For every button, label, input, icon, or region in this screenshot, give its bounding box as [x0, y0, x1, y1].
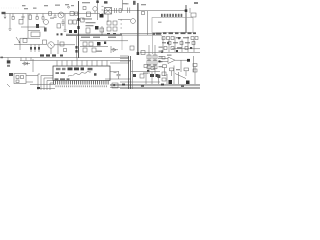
label row4: [173, 42, 178, 43]
label under Q2: [82, 18, 92, 19]
mid right grid: resistor R26: [162, 37, 165, 40]
label col a: [159, 56, 163, 57]
resistor R52: [162, 78, 166, 81]
text row over mid cluster c: [108, 37, 116, 38]
wire vertical x28: [27, 14, 29, 39]
resistor R21: [100, 28, 104, 32]
wire top rail right: [104, 10, 186, 12]
wire from box: [26, 75, 38, 77]
resistor R38b: [64, 49, 67, 52]
capacitor C10: [140, 74, 144, 78]
label C12: [114, 71, 117, 73]
resistor R39: [60, 42, 64, 46]
wire h y44.5: [14, 44, 42, 46]
bus wire y60.5: [20, 60, 131, 62]
mark inside B1: [158, 22, 162, 24]
dark mark: [36, 24, 39, 28]
vertical connects right grid: [163, 37, 194, 53]
glyph left of box: [9, 73, 13, 76]
resistor R43: [92, 48, 96, 52]
wire vertical x108: [107, 14, 109, 22]
label near V2: [133, 1, 136, 5]
capacitor C7: [62, 19, 65, 26]
resistor R55: [144, 65, 148, 68]
dark dashes row: [40, 54, 44, 56]
dark mark grid b: [167, 42, 169, 44]
resistor R46: [147, 61, 151, 65]
resistor R41: [89, 42, 93, 46]
partial bus y79: [105, 78, 131, 80]
capacitor C6: [54, 14, 57, 18]
label row3: [162, 42, 166, 43]
U1 text row1: [56, 68, 93, 71]
dark blob br2: [186, 81, 190, 85]
dark mark far left: [1, 57, 4, 59]
bottom bus 2: [110, 85, 200, 87]
diode D2: [22, 62, 30, 65]
wire vertical x65: [64, 14, 66, 31]
resistor R47: [153, 61, 157, 65]
vertical x167: [166, 74, 168, 84]
resistor R19: [81, 18, 85, 22]
resistor R51: [162, 72, 166, 76]
wire h y38.2: [20, 37, 40, 39]
bottom-left box: [14, 74, 26, 84]
wire h y52.5: [140, 52, 200, 54]
dark blob br1: [169, 80, 173, 84]
vertical x174: [173, 66, 175, 85]
op-amp U2: [168, 57, 175, 64]
resistor R56: [151, 67, 155, 70]
vertical x35 w blob: [34, 45, 36, 53]
dark square A: [69, 30, 72, 33]
resistor R2: [29, 15, 31, 20]
label col c: [159, 47, 163, 48]
vertical pair x76.5: [76, 36, 78, 58]
vertical box edge x122: [121, 36, 123, 50]
dark mark r1: [150, 74, 154, 77]
staircase wire 1: [41, 76, 53, 91]
resistor R32: [180, 42, 183, 45]
wire from box2: [26, 81, 33, 83]
box B1 shield: [152, 18, 193, 33]
bus tick b: [141, 85, 144, 87]
label near R8: [50, 18, 54, 19]
vertical x158.5: [158, 78, 160, 84]
staircase foot line: [38, 88, 55, 90]
transistor Q2: [93, 7, 97, 11]
blob top x97: [96, 1, 99, 4]
resistor R5: [49, 12, 52, 15]
label right of V2: [141, 4, 146, 5]
resistor R30: [195, 37, 198, 40]
dark blob mid-bottom: [133, 74, 136, 77]
resistor R13: [119, 9, 122, 12]
wire vertical x97: [97, 0, 99, 20]
bottom bus 3: [110, 86, 200, 88]
capacitor C11: [157, 75, 160, 79]
resistor R25: [113, 27, 117, 31]
dark corner: [37, 87, 40, 89]
text row over mid cluster: [81, 37, 90, 38]
wire vertical dark V2: [137, 3, 139, 55]
faint dot row top-left: [1, 7, 19, 9]
resistor R36: [185, 47, 188, 50]
resistor R45: [153, 55, 157, 59]
transformer T1: [105, 8, 112, 15]
resistor R22: [107, 21, 111, 25]
mark under Q3: [44, 28, 47, 32]
partial bus y82: [120, 81, 160, 83]
resistor R1: [12, 14, 14, 17]
corner label: [194, 2, 198, 4]
resistor R11 dark: [100, 14, 104, 18]
dark dot under cluster: [147, 70, 149, 72]
label IN: [2, 12, 6, 14]
vertical x149: [148, 45, 150, 74]
dark dot in U1: [94, 73, 97, 76]
vertical x146: [145, 74, 147, 84]
dark blob c: [97, 42, 101, 46]
blob pair: [75, 46, 77, 49]
wire h y30.5: [28, 30, 40, 32]
resistor R18: [73, 20, 77, 24]
vertical x31 w blob: [30, 45, 32, 53]
dark dash c: [52, 54, 56, 56]
tick pins T1: [102, 6, 104, 14]
bus wire y57.5: [0, 57, 129, 59]
staircase wire 2: [44, 78, 53, 90]
resistor R6: [70, 12, 74, 16]
ground G1: [9, 29, 12, 31]
resistor R17: [69, 20, 73, 24]
label row: [176, 37, 181, 38]
resistor R50: [184, 68, 189, 71]
U1 inner bottom text: [55, 78, 70, 80]
dark mark r2: [156, 74, 159, 77]
bus stub verticals left: [21, 58, 31, 61]
dark square B: [74, 30, 77, 33]
vertical bus x130.6: [130, 56, 132, 89]
resistor R35: [171, 47, 174, 50]
resistor R40: [83, 42, 87, 46]
dark mark grid a: [178, 37, 180, 39]
wire vertical x147: [147, 11, 149, 35]
resistor R15: [191, 13, 196, 17]
label cluster: [123, 3, 128, 4]
bus tick a: [122, 84, 125, 86]
wire vertical x122.5 top: [122, 0, 124, 11]
U2 input wires: [158, 59, 168, 62]
dark mark opamp in: [159, 60, 161, 62]
transistor Q4: [48, 42, 54, 48]
resistor R27: [167, 37, 170, 40]
tiny ring: [68, 6, 70, 8]
resistor R20: [86, 28, 90, 33]
text row over mid cluster b: [93, 37, 100, 38]
glyph below dark comp: [7, 65, 10, 67]
ticks dashed box left: [121, 20, 123, 28]
wire vertical x33 low: [32, 59, 34, 72]
wire vertical main V1: [78, 1, 80, 58]
dark dot mid: [104, 42, 106, 45]
label col d: [159, 51, 163, 52]
vertical bus x128.6: [128, 56, 130, 89]
wire vertical x10: [9, 14, 11, 30]
U1 text row2: [56, 72, 66, 74]
wire h y46.5: [80, 46, 108, 48]
dark dot bus b: [57, 33, 59, 35]
diagonal wire: [175, 74, 186, 79]
blob pair2: [75, 50, 77, 53]
vertical x195: [194, 67, 196, 85]
capacitor C8: [128, 8, 130, 14]
dark dash b: [46, 54, 50, 56]
capacitor C9: [64, 30, 67, 32]
resistor R44: [147, 55, 151, 59]
U1 pin numbers: [56, 85, 107, 87]
wire h y34.7: [66, 34, 122, 35]
connector CN1 pins: [161, 14, 182, 17]
resistor R37: [23, 39, 27, 43]
resistor R28: [171, 37, 174, 40]
resistor R54: [193, 69, 197, 72]
verticals under: [165, 56, 194, 76]
label col e: [159, 66, 163, 67]
IC U1 body: [53, 66, 110, 81]
bus feeds left: [120, 56, 131, 61]
text rows mid: [86, 22, 96, 23]
vertical x155: [154, 45, 156, 74]
node blob on V1 lower: [77, 26, 79, 29]
wire h y44.8: [55, 44, 76, 46]
wire vertical x58: [57, 40, 59, 54]
capacitor C12: [117, 71, 121, 79]
arrow blob V2 end: [137, 52, 140, 55]
vertical x39 w blob: [38, 45, 40, 53]
resistor R48: [163, 65, 167, 68]
coil component x130 y46: [130, 46, 134, 50]
label col b: [159, 61, 163, 62]
resistor R23: [113, 21, 117, 25]
label mid-bottom: [143, 73, 148, 74]
wire U1 to C12: [110, 63, 129, 72]
dark dot bus a: [61, 33, 63, 35]
wire h y71.5: [131, 71, 160, 73]
dark blob out: [187, 59, 190, 62]
bus tick c: [161, 84, 164, 86]
vertical bus x132.4: [131, 60, 133, 89]
diag tick: [7, 84, 10, 87]
U1 scribble: [68, 72, 91, 77]
U1 pin comb: [54, 81, 109, 85]
vertical x178.5: [178, 72, 180, 84]
dark dot grid d: [161, 50, 163, 52]
vertical x152: [151, 72, 153, 84]
wire h y40.8: [80, 40, 128, 42]
wire junction right: [185, 5, 187, 33]
small comp x141 y50: [141, 51, 145, 55]
resistor R3: [36, 14, 38, 17]
label C8: [126, 3, 129, 4]
label a2: [22, 5, 26, 6]
staircase wire 4: [50, 83, 53, 90]
resistor R29: [191, 37, 194, 40]
resistor R49: [170, 68, 174, 71]
mark row under2: [113, 33, 116, 35]
dark blob mid: [95, 26, 99, 30]
label row5: [185, 42, 190, 43]
resistor R53: [193, 64, 197, 67]
resistor R16: [19, 20, 23, 25]
resistor R38: [43, 40, 47, 45]
bottom bus 1: [30, 83, 200, 85]
resistor R9: [83, 7, 86, 10]
bus tick d: [181, 85, 184, 87]
wire vertical x20: [19, 38, 21, 50]
wire vertical x8: [7, 58, 9, 61]
small box left of opamp: [162, 57, 165, 60]
transistor Q3: [44, 20, 49, 25]
glyph row in B1: [153, 32, 197, 35]
label a3: [33, 8, 37, 9]
label cluster top: [82, 2, 90, 3]
junction blob: [185, 9, 188, 12]
label row6: [177, 47, 182, 48]
capacitor C1: [22, 14, 25, 21]
label a5: [71, 5, 74, 6]
inner comp b: [21, 76, 24, 79]
resistor R46b: [147, 66, 151, 69]
dark dash d: [60, 55, 63, 57]
inner comp c: [16, 80, 19, 83]
connector box below right of U1: [112, 83, 118, 88]
resistor R7: [75, 12, 78, 15]
resistor R8: [57, 24, 61, 28]
vertical box edge x152.5: [152, 33, 154, 54]
coil L2: [131, 19, 136, 24]
bottom bus 4: [120, 88, 200, 90]
resistor R33: [192, 42, 195, 45]
label C5: [65, 4, 69, 5]
mark row under: [107, 33, 110, 35]
inner comp a: [16, 76, 19, 79]
dark comp left: [7, 60, 11, 63]
label L1: [24, 8, 28, 9]
label br: [176, 69, 180, 70]
transistor Q1: [58, 12, 64, 18]
diode D1: [111, 46, 118, 53]
wire rail step: [103, 11, 105, 14]
dark dot grid e: [176, 50, 178, 52]
text row mid2: [86, 25, 94, 26]
U1 top pin stubs: [57, 58, 107, 66]
node blob on V1: [77, 18, 79, 21]
resistor R10: [87, 12, 91, 17]
wire h y27 left: [21, 26, 45, 28]
box small lower-left: [31, 32, 40, 37]
label row2: [183, 37, 189, 38]
staircase wire 5: [38, 74, 40, 90]
label R4: [55, 5, 60, 6]
antenna input: [4, 14, 6, 19]
resistor R42: [83, 48, 87, 52]
dark mark grid c: [190, 47, 192, 49]
wire top rail left: [2, 13, 100, 15]
label above opamp: [167, 55, 172, 56]
resistor R31: [168, 42, 171, 45]
label T1: [104, 1, 108, 3]
capacitor C13: [115, 8, 117, 13]
stub x190: [189, 8, 191, 13]
wire h y19.5: [118, 19, 131, 21]
wire h y48.5 right: [172, 48, 200, 50]
label a4: [44, 5, 48, 6]
resistor R14: [142, 12, 145, 15]
wire vertical x102: [101, 26, 103, 35]
capacitor C2: [42, 14, 44, 17]
wire double y33.5: [120, 33, 162, 35]
resistor R34: [164, 47, 167, 50]
resistor R24: [107, 27, 111, 31]
resistor R47b: [153, 66, 157, 69]
staircase wire 3: [47, 81, 53, 91]
arrow tuning: [16, 37, 20, 43]
label under diode: [96, 51, 102, 52]
U2 output: [175, 59, 187, 61]
